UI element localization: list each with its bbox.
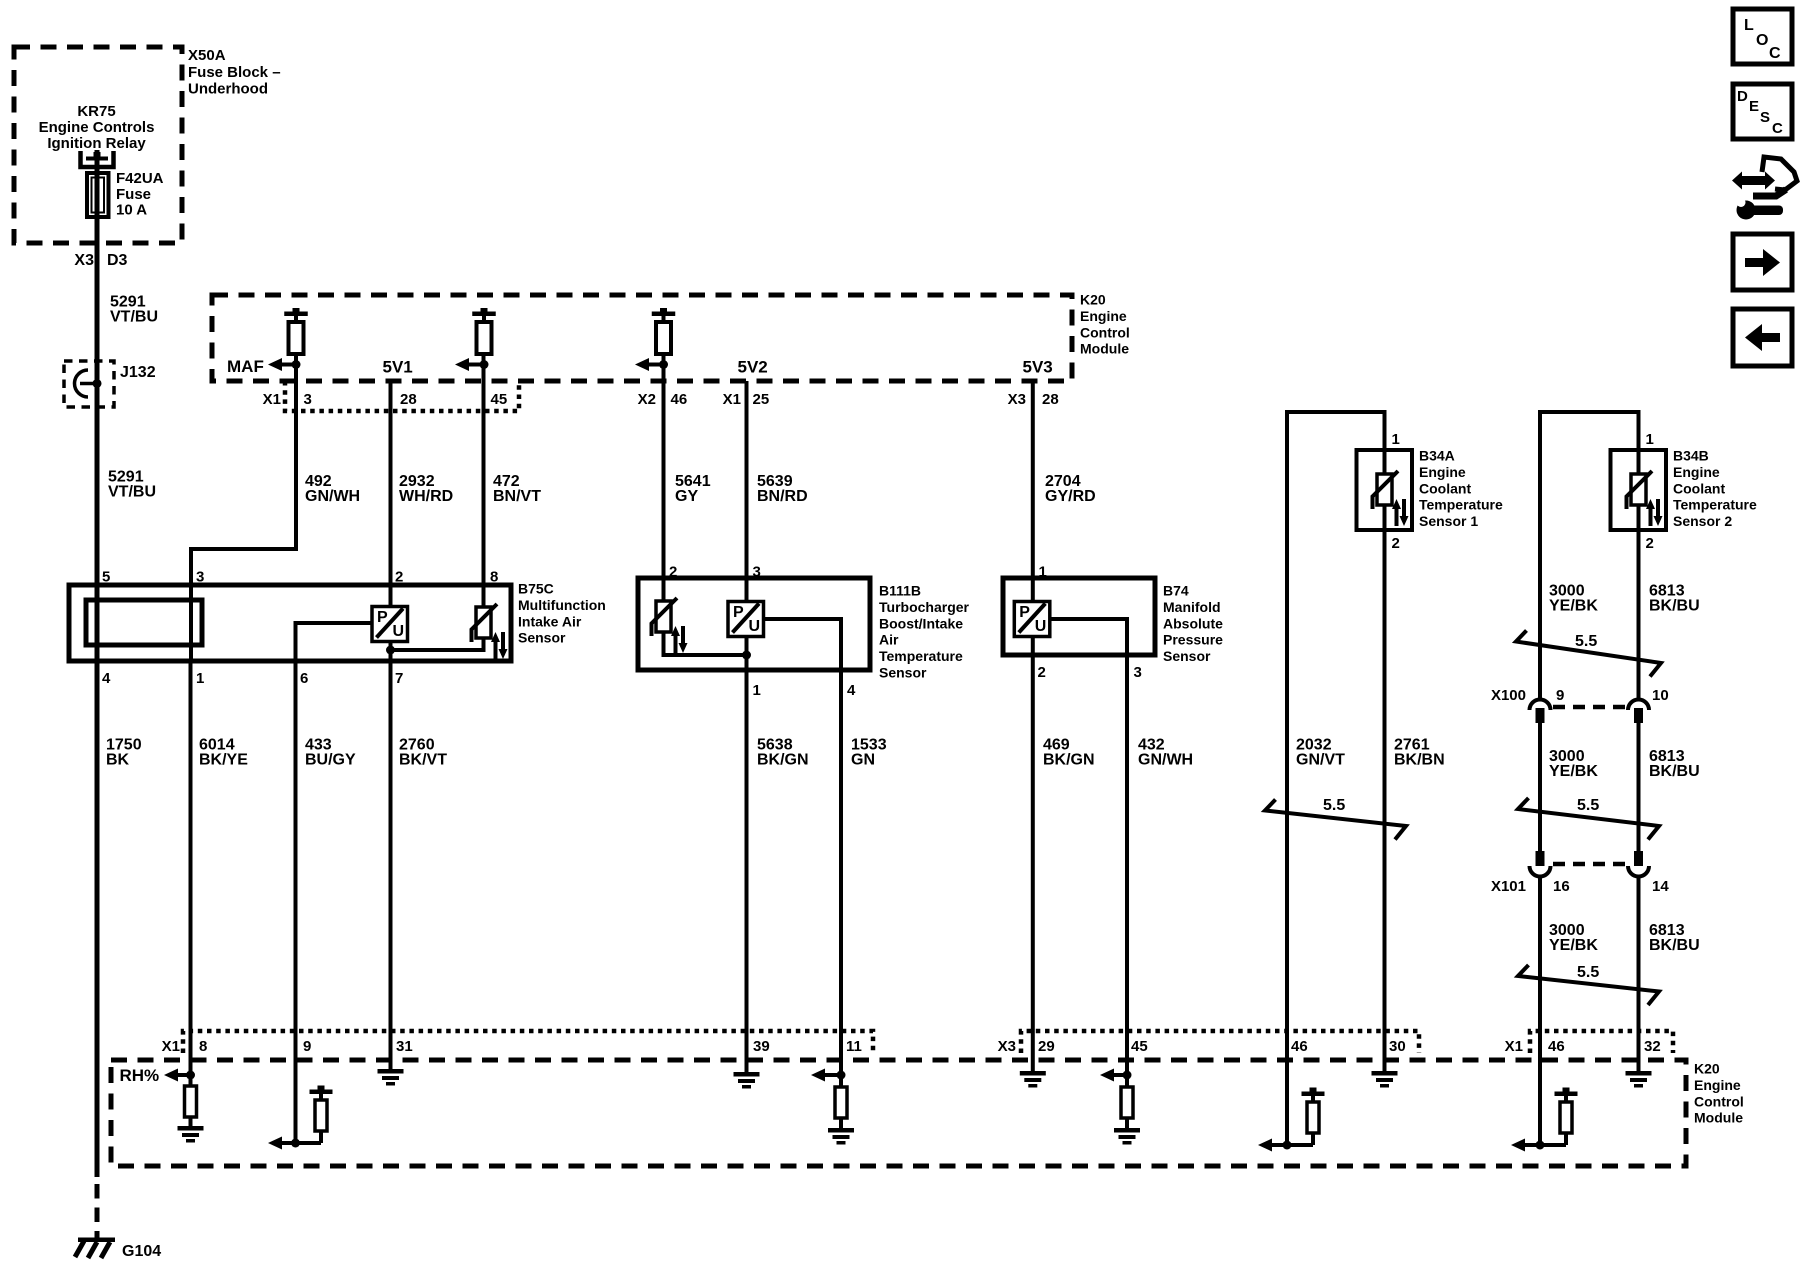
resistor ECM pin 46 pull-up xyxy=(1302,1088,1325,1146)
svg-text:BK/YE: BK/YE xyxy=(199,752,248,769)
svg-text:Coolant: Coolant xyxy=(1673,480,1725,496)
label K20 Engine Control Module (bottom) xyxy=(1694,1061,1744,1126)
arrow pin 45 signal xyxy=(455,358,484,371)
bottom connector dotted strip X3 xyxy=(1021,1031,1419,1053)
svg-text:X2: X2 xyxy=(638,391,656,408)
resistor ECM pin 8 xyxy=(185,1086,197,1117)
svg-text:28: 28 xyxy=(400,391,417,408)
connector X101 terminal 14 xyxy=(1628,851,1649,877)
wire 6813 BK/BU X100 to X101 xyxy=(1637,723,1641,851)
bottom connector dotted strip X1 left xyxy=(183,1031,873,1053)
svg-text:BK/BU: BK/BU xyxy=(1649,598,1700,615)
svg-text:16: 16 xyxy=(1553,878,1570,895)
arrow pin 45 signal xyxy=(1100,1069,1127,1082)
svg-text:28: 28 xyxy=(1042,391,1059,408)
svg-text:46: 46 xyxy=(1291,1038,1308,1055)
icon box LOC xyxy=(1733,9,1792,64)
wire 5639 BN/RD 5V2 to B111B P/U then pin 1 down xyxy=(745,381,749,602)
svg-text:1: 1 xyxy=(196,670,204,687)
arrow pin 9 signal xyxy=(268,1137,282,1150)
svg-text:U: U xyxy=(749,618,761,635)
svg-text:39: 39 xyxy=(753,1038,770,1055)
ground G104 hatches xyxy=(75,1238,115,1259)
svg-text:31: 31 xyxy=(396,1038,413,1055)
label B75C Multifunction Intake Air Sensor xyxy=(518,581,606,646)
svg-text:Module: Module xyxy=(1080,341,1129,357)
wire 6014 BK/YE B75C pin1 to ECM pin 8 xyxy=(189,661,193,1086)
wire 5291 VT/BU from relay through fuse to B75C pin 5 xyxy=(95,150,100,585)
svg-text:11: 11 xyxy=(846,1038,862,1055)
resistor ECM pin 45 xyxy=(1121,1087,1133,1118)
stub to ground xyxy=(839,1118,843,1128)
svg-text:Sensor 1: Sensor 1 xyxy=(1419,513,1478,529)
wire size marker 5.5 left pair xyxy=(1265,800,1406,840)
junction B111B xyxy=(742,651,751,660)
label B111B Turbocharger Boost/Intake Air Temperature Sensor xyxy=(879,583,970,681)
svg-text:B34A: B34A xyxy=(1419,448,1455,464)
svg-text:MAF: MAF xyxy=(227,357,264,376)
label F42UA Fuse 10 A xyxy=(116,170,164,219)
wire size marker 5.5 middle right pair xyxy=(1518,798,1659,840)
junction pin 46 xyxy=(1283,1141,1292,1150)
resistor ECM pin 9 pull-up xyxy=(310,1086,333,1144)
wire thermistor bottom to pin1 wire xyxy=(664,632,747,655)
svg-text:1: 1 xyxy=(753,682,761,699)
svg-text:BK/BU: BK/BU xyxy=(1649,763,1700,780)
ECM X1 connector dotted box pins 3 28 45 xyxy=(285,381,519,411)
svg-text:14: 14 xyxy=(1652,878,1669,895)
label K20 Engine Control Module (top) xyxy=(1080,292,1130,357)
ECM K20 top dashed box xyxy=(212,295,1072,381)
svg-text:Engine: Engine xyxy=(1673,464,1720,480)
P/U converter B74 xyxy=(1014,602,1050,637)
ground ECM pin 29 xyxy=(1020,1071,1046,1088)
svg-text:3: 3 xyxy=(304,391,312,408)
svg-text:Manifold: Manifold xyxy=(1163,599,1221,615)
wire size marker 5.5 lower right pair xyxy=(1518,965,1659,1005)
pin labels bottom row xyxy=(162,1038,1661,1055)
svg-text:1: 1 xyxy=(1646,431,1654,448)
wire pin6 stub to P/U xyxy=(296,623,373,661)
sensor B75C box xyxy=(69,585,511,661)
arrow pin 11 signal xyxy=(811,1069,841,1082)
svg-text:YE/BK: YE/BK xyxy=(1549,763,1598,780)
svg-text:X1: X1 xyxy=(263,391,281,408)
wire size marker 5.5 upper right pair xyxy=(1516,631,1661,677)
svg-text:7: 7 xyxy=(395,670,403,687)
svg-text:P: P xyxy=(377,609,388,626)
thermistor B111B air temp xyxy=(652,598,688,653)
svg-text:Fuse Block –: Fuse Block – xyxy=(188,64,281,81)
wire 492 GN/WH pin3 to B75C pin 3 xyxy=(191,354,296,585)
svg-text:X1: X1 xyxy=(723,391,741,408)
svg-text:RH%: RH% xyxy=(120,1066,160,1085)
svg-text:B74: B74 xyxy=(1163,583,1189,599)
svg-text:29: 29 xyxy=(1038,1038,1055,1055)
icon box arrow left xyxy=(1733,309,1792,366)
thermistor B34A coolant temp 1 xyxy=(1373,471,1409,526)
ground ECM pin 8 resistor xyxy=(178,1126,204,1143)
ground ECM pin 32 xyxy=(1626,1071,1652,1088)
arrow pin 46 signal xyxy=(635,358,664,371)
P/U converter B111B xyxy=(728,602,764,637)
svg-text:Fuse: Fuse xyxy=(116,186,151,203)
wire 1750 BK dashed segment xyxy=(95,1184,100,1238)
wire 2704 GY/RD 5V3 to B74 P/U xyxy=(1031,381,1035,602)
icon box DESC xyxy=(1733,84,1792,139)
svg-text:2: 2 xyxy=(669,564,677,581)
label X50A Fuse Block Underhood xyxy=(188,47,281,98)
ground ECM pin 45 resistor xyxy=(1114,1128,1140,1145)
svg-text:2: 2 xyxy=(1646,535,1654,552)
svg-text:2: 2 xyxy=(1392,535,1400,552)
junction pin 45 xyxy=(1123,1071,1132,1080)
pin labels top ECM row xyxy=(263,391,1059,408)
svg-text:Turbocharger: Turbocharger xyxy=(879,599,970,615)
svg-text:1: 1 xyxy=(1392,431,1400,448)
P/U converter B75C xyxy=(372,607,408,642)
svg-text:5V1: 5V1 xyxy=(383,358,413,377)
svg-text:X3: X3 xyxy=(74,252,94,269)
svg-text:Temperature: Temperature xyxy=(1419,497,1503,513)
wire 472 BN/VT pin45 to B75C thermistor xyxy=(482,354,486,607)
resistor ECM signal pull-up xyxy=(652,308,676,354)
svg-text:8: 8 xyxy=(490,569,498,586)
svg-text:4: 4 xyxy=(847,682,856,699)
fuse F42UA xyxy=(87,173,109,217)
svg-text:B111B: B111B xyxy=(879,583,921,599)
ground ECM pin 39 xyxy=(734,1072,760,1089)
sensor B34B box xyxy=(1611,450,1667,530)
ground ECM pin 31 xyxy=(378,1069,404,1086)
ground ECM pin 11 resistor xyxy=(828,1128,854,1145)
svg-text:BN/VT: BN/VT xyxy=(493,488,541,505)
splice J132 symbol xyxy=(75,370,102,397)
bottom connector dotted strip X1 right xyxy=(1530,1031,1673,1053)
svg-text:BU/GY: BU/GY xyxy=(305,752,356,769)
arrow MAF signal xyxy=(268,358,296,371)
svg-text:O: O xyxy=(1756,32,1768,49)
svg-text:46: 46 xyxy=(671,391,688,408)
junction X1-46 xyxy=(1536,1141,1545,1150)
svg-text:Intake Air: Intake Air xyxy=(518,613,582,629)
connector X100 terminal 10 xyxy=(1628,700,1649,724)
svg-text:Engine: Engine xyxy=(1694,1077,1741,1093)
svg-text:B75C: B75C xyxy=(518,581,554,597)
wire junction to thermistor bottom xyxy=(391,638,484,650)
svg-text:3: 3 xyxy=(1134,664,1142,681)
ECM K20 bottom dashed box xyxy=(111,1060,1686,1166)
svg-text:3: 3 xyxy=(753,564,761,581)
svg-text:D3: D3 xyxy=(107,252,128,269)
wire 432 GN/WH P/U out to pin 3 to ECM pin 45 xyxy=(1051,619,1128,1087)
svg-text:C: C xyxy=(1769,45,1781,62)
svg-text:BK/VT: BK/VT xyxy=(399,752,447,769)
connector X101 terminal 16 xyxy=(1530,851,1551,877)
label B74 Manifold Absolute Pressure Sensor xyxy=(1163,583,1223,665)
wire 5638 BK/GN P/U bottom to ECM pin 39 xyxy=(745,637,749,1073)
svg-text:Air: Air xyxy=(879,632,899,648)
svg-text:10: 10 xyxy=(1652,687,1669,704)
svg-text:E: E xyxy=(1749,98,1759,115)
arrow RH% signal xyxy=(164,1069,191,1082)
svg-text:Coolant: Coolant xyxy=(1419,480,1471,496)
svg-text:BK: BK xyxy=(106,752,130,769)
svg-text:Sensor: Sensor xyxy=(518,630,566,646)
junction pin 46 xyxy=(659,360,668,369)
svg-text:25: 25 xyxy=(753,391,770,408)
svg-text:Engine: Engine xyxy=(1419,464,1466,480)
svg-text:GN/WH: GN/WH xyxy=(1138,752,1193,769)
sensor B74 box xyxy=(1003,578,1155,655)
svg-text:Control: Control xyxy=(1694,1093,1744,1109)
svg-text:5.5: 5.5 xyxy=(1575,633,1597,650)
wire 1533 GN P/U out to pin 4 to ECM pin 11 xyxy=(764,619,841,1087)
wire 3000 YE/BK X100 to X101 xyxy=(1538,723,1542,851)
wire 2932 WH/RD 5V1 to B75C P/U xyxy=(389,381,393,607)
svg-text:5V3: 5V3 xyxy=(1023,358,1053,377)
svg-text:30: 30 xyxy=(1389,1038,1406,1055)
svg-text:Engine Controls: Engine Controls xyxy=(39,119,155,136)
svg-text:45: 45 xyxy=(491,391,508,408)
svg-text:2: 2 xyxy=(1038,664,1046,681)
svg-text:Sensor: Sensor xyxy=(1163,648,1211,664)
svg-text:X50A: X50A xyxy=(188,47,226,64)
wire into thermistor xyxy=(1637,450,1641,474)
junction MAF xyxy=(292,360,301,369)
label B34A Engine Coolant Temperature Sensor 1 xyxy=(1419,448,1503,530)
svg-text:F42UA: F42UA xyxy=(116,170,164,187)
svg-text:1: 1 xyxy=(1039,564,1047,581)
resistor ECM X1-46 pull-up xyxy=(1555,1088,1578,1146)
svg-text:X100: X100 xyxy=(1491,687,1526,704)
wire 2032 GN/VT ECM pin46 up and over to B34A pin 1 xyxy=(1287,412,1385,1145)
svg-text:BK/GN: BK/GN xyxy=(757,752,809,769)
svg-text:Temperature: Temperature xyxy=(879,648,963,664)
wire 2760 BK/VT B75C pin7 to ECM pin 31 xyxy=(389,661,393,1069)
junction pin 45 xyxy=(480,360,489,369)
connector X100 terminal 9 xyxy=(1530,700,1551,724)
svg-text:BN/RD: BN/RD xyxy=(757,488,808,505)
junction pin 9 xyxy=(291,1139,300,1148)
svg-text:6: 6 xyxy=(300,670,308,687)
svg-text:YE/BK: YE/BK xyxy=(1549,598,1598,615)
wire 2761 BK/BN B34A pin2 to ECM pin 30 xyxy=(1383,505,1387,1071)
svg-text:Engine: Engine xyxy=(1080,308,1127,324)
wire 1750 BK B75C pin4 to G104 xyxy=(95,661,100,1177)
X1-46 horizontal xyxy=(1524,1143,1566,1147)
svg-text:B34B: B34B xyxy=(1673,448,1709,464)
svg-text:4: 4 xyxy=(102,670,111,687)
junction pin 8 xyxy=(186,1071,195,1080)
svg-text:X3: X3 xyxy=(998,1038,1016,1055)
svg-text:BK/BN: BK/BN xyxy=(1394,752,1445,769)
svg-text:5.5: 5.5 xyxy=(1323,797,1345,814)
svg-text:WH/RD: WH/RD xyxy=(399,488,453,505)
wire 3000 YE/BK X101 to ECM X1-46 xyxy=(1538,877,1542,1145)
svg-text:Sensor: Sensor xyxy=(879,665,927,681)
icon box arrow right xyxy=(1733,234,1792,290)
svg-text:J132: J132 xyxy=(120,364,156,381)
svg-text:P: P xyxy=(1019,604,1030,621)
svg-text:P: P xyxy=(733,604,744,621)
svg-text:Temperature: Temperature xyxy=(1673,497,1757,513)
relay KR75 contact xyxy=(81,151,114,167)
svg-text:Module: Module xyxy=(1694,1110,1743,1126)
svg-text:32: 32 xyxy=(1644,1038,1661,1055)
svg-text:Sensor 2: Sensor 2 xyxy=(1673,513,1732,529)
label KR75 Engine Controls Ignition Relay xyxy=(39,103,155,152)
junction B75C P/U-thermistor xyxy=(386,646,395,655)
stub to ground xyxy=(189,1117,193,1126)
svg-text:K20: K20 xyxy=(1080,292,1106,308)
resistor ECM MAF pull-up xyxy=(284,308,308,354)
svg-text:X101: X101 xyxy=(1491,878,1526,895)
svg-text:45: 45 xyxy=(1131,1038,1148,1055)
pin 9 horizontal xyxy=(281,1141,321,1145)
svg-text:10 A: 10 A xyxy=(116,202,147,219)
label B34B Engine Coolant Temperature Sensor 2 xyxy=(1673,448,1757,530)
svg-text:L: L xyxy=(1744,17,1754,34)
svg-text:X1: X1 xyxy=(162,1038,180,1055)
svg-text:8: 8 xyxy=(199,1038,207,1055)
svg-text:Pressure: Pressure xyxy=(1163,632,1223,648)
svg-text:Control: Control xyxy=(1080,324,1130,340)
wire pin5 to pin4 through heater xyxy=(95,585,100,661)
icon wiring navigation (double arrow with outline arrow and wrench) xyxy=(1732,157,1797,220)
svg-text:X3: X3 xyxy=(1008,391,1026,408)
svg-text:BK/GN: BK/GN xyxy=(1043,752,1095,769)
svg-text:5.5: 5.5 xyxy=(1577,964,1599,981)
svg-text:46: 46 xyxy=(1548,1038,1565,1055)
svg-text:K20: K20 xyxy=(1694,1061,1720,1077)
svg-text:KR75: KR75 xyxy=(77,103,115,120)
svg-text:C: C xyxy=(1772,120,1783,137)
svg-text:Boost/Intake: Boost/Intake xyxy=(879,615,963,631)
svg-text:YE/BK: YE/BK xyxy=(1549,937,1598,954)
svg-text:Multifunction: Multifunction xyxy=(518,597,606,613)
svg-text:5.5: 5.5 xyxy=(1577,797,1599,814)
stub to ground xyxy=(1125,1118,1129,1128)
ground ECM pin 30 xyxy=(1372,1071,1398,1088)
svg-text:BK/BU: BK/BU xyxy=(1649,937,1700,954)
svg-text:Ignition Relay: Ignition Relay xyxy=(47,135,146,152)
resistor ECM pin 11 xyxy=(835,1087,847,1118)
svg-text:9: 9 xyxy=(303,1038,311,1055)
wire 3000 YE/BK over to B34B pin 1 xyxy=(1540,412,1639,699)
wire pin3 to pin1 through heater xyxy=(189,585,193,661)
svg-text:2: 2 xyxy=(395,569,403,586)
resistor ECM 5V ref pull-up xyxy=(472,308,496,354)
svg-text:GY: GY xyxy=(675,488,698,505)
svg-text:GN: GN xyxy=(851,752,875,769)
svg-text:U: U xyxy=(1035,618,1047,635)
svg-text:VT/BU: VT/BU xyxy=(110,309,158,326)
sensor B34A box xyxy=(1357,450,1413,530)
thermistor B34B coolant temp 2 xyxy=(1627,471,1663,526)
wire P/U bottom to pin 7 xyxy=(389,642,393,662)
wire 6813 BK/BU B34B pin2 down xyxy=(1637,505,1641,699)
arrow pin 46 signal xyxy=(1258,1139,1287,1152)
wire 6813 BK/BU X101 to ECM pin 32 xyxy=(1637,877,1641,1071)
svg-text:S: S xyxy=(1760,109,1770,126)
svg-text:5V2: 5V2 xyxy=(738,358,768,377)
arrow X1-46 signal xyxy=(1511,1139,1540,1152)
fuse block X50A dashed box xyxy=(14,47,182,243)
wire 5641 GY pin X2-46 to B111B thermistor xyxy=(662,354,666,601)
X100 mating dashed line xyxy=(1553,705,1627,710)
svg-text:3: 3 xyxy=(196,569,204,586)
X101 mating dashed line xyxy=(1553,862,1627,867)
svg-text:GY/RD: GY/RD xyxy=(1045,488,1096,505)
svg-text:VT/BU: VT/BU xyxy=(108,484,156,501)
wire 469 BK/GN P/U bottom to ECM pin 29 xyxy=(1031,637,1035,1072)
svg-text:X1: X1 xyxy=(1505,1038,1523,1055)
wire 433 BU/GY B75C pin6 to ECM pin 9 xyxy=(294,661,298,1143)
pin 46 horizontal xyxy=(1271,1143,1313,1147)
svg-text:D: D xyxy=(1737,88,1748,105)
sensor B111B box xyxy=(638,578,870,670)
svg-text:9: 9 xyxy=(1556,687,1564,704)
svg-text:Absolute: Absolute xyxy=(1163,615,1223,631)
svg-text:Underhood: Underhood xyxy=(188,81,268,98)
thermistor B75C intake air temp xyxy=(472,604,508,659)
svg-text:GN/VT: GN/VT xyxy=(1296,752,1345,769)
svg-text:G104: G104 xyxy=(122,1243,161,1260)
svg-text:5: 5 xyxy=(102,569,110,586)
splice J132 dashed box xyxy=(64,361,114,407)
svg-text:U: U xyxy=(393,623,405,640)
svg-text:GN/WH: GN/WH xyxy=(305,488,360,505)
junction pin 11 xyxy=(837,1071,846,1080)
wire into thermistor xyxy=(1383,450,1387,474)
B75C heater element xyxy=(86,600,202,645)
